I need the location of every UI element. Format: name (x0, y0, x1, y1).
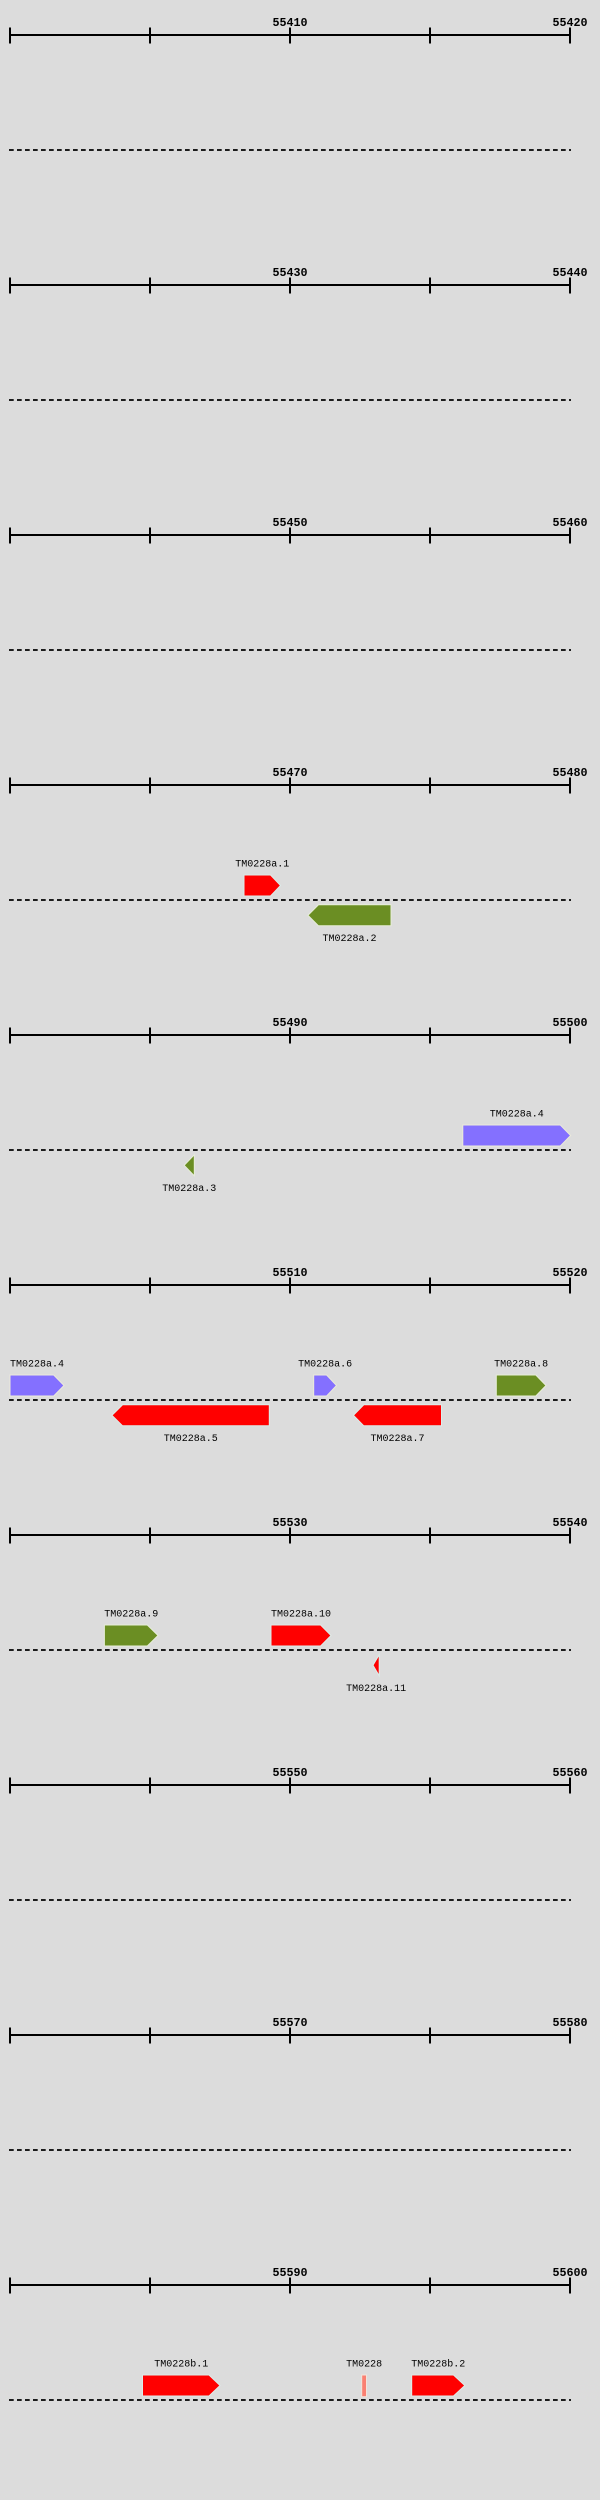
tick mark 55460 panel 4 (9, 778, 11, 794)
svg-text:TM0228a.1: TM0228a.1 (235, 859, 289, 870)
svg-text:TM0228: TM0228 (346, 2359, 382, 2370)
tick mark 55410 panel 1 (289, 28, 291, 44)
tick mark 55460 panel 3 (569, 528, 571, 544)
tick mark 55500 panel 5 (569, 1028, 571, 1044)
tick mark 55510 panel 6 (289, 1278, 291, 1294)
ruler axis line panel 10 (55580-55600) (9, 2284, 571, 2286)
ruler axis line panel 8 (55540-55560) (9, 1784, 571, 1786)
svg-text:TM0228a.7: TM0228a.7 (370, 1434, 424, 1445)
sequence midline panel 5 (dashed) (9, 1149, 571, 1151)
tick mark 55440 panel 3 (9, 528, 11, 544)
svg-text:TM0228a.2: TM0228a.2 (322, 934, 376, 945)
tick mark 55490 panel 5 (289, 1028, 291, 1044)
svg-text:55410: 55410 (272, 16, 307, 30)
gene arrow TM0228a.4 (forward strand) (10, 1375, 64, 1396)
svg-text:55570: 55570 (272, 2016, 307, 2030)
svg-text:TM0228a.4: TM0228a.4 (490, 1109, 544, 1120)
svg-text:55420: 55420 (552, 16, 587, 30)
svg-text:TM0228a.5: TM0228a.5 (164, 1434, 218, 1445)
svg-text:TM0228a.4: TM0228a.4 (10, 1359, 64, 1370)
tick mark 55425 panel 2 (149, 278, 151, 294)
tick mark 55520 panel 6 (569, 1278, 571, 1294)
svg-text:55590: 55590 (272, 2266, 307, 2280)
svg-text:TM0228b.2: TM0228b.2 (411, 2358, 465, 2370)
gene arrow TM0228a.5 (reverse strand) (112, 1405, 269, 1426)
tick mark 55550 panel 8 (289, 1778, 291, 1794)
tick mark 55570 panel 9 (289, 2028, 291, 2044)
tick mark 55560 panel 8 (569, 1778, 571, 1794)
sequence midline panel 2 (dashed) (9, 399, 571, 401)
tick mark 55575 panel 9 (429, 2028, 431, 2044)
ruler axis line panel 1 (55400-55420) (9, 34, 571, 36)
svg-text:55540: 55540 (552, 1516, 587, 1530)
svg-text:TM0228a.11: TM0228a.11 (346, 1684, 406, 1695)
ruler axis line panel 9 (55560-55580) (9, 2034, 571, 2036)
ruler axis line panel 7 (55520-55540) (9, 1534, 571, 1536)
tick mark 55470 panel 4 (289, 778, 291, 794)
svg-text:55580: 55580 (552, 2016, 587, 2030)
tick mark 55440 panel 2 (569, 278, 571, 294)
tick mark 55430 panel 2 (289, 278, 291, 294)
tick mark 55450 panel 3 (289, 528, 291, 544)
svg-text:TM0228a.8: TM0228a.8 (494, 1359, 548, 1370)
gene arrow TM0228a.7 (reverse strand) (354, 1405, 442, 1426)
tick mark 55475 panel 4 (429, 778, 431, 794)
svg-text:TM0228a.9: TM0228a.9 (104, 1609, 158, 1620)
tick mark 55525 panel 7 (149, 1528, 151, 1544)
tick mark 55590 panel 10 (289, 2278, 291, 2294)
gene arrow TM0228a.8 (forward strand) (496, 1375, 546, 1396)
tick mark 55420 panel 1 (569, 28, 571, 44)
ruler axis line panel 6 (55500-55520) (9, 1284, 571, 1286)
tick mark 55485 panel 5 (149, 1028, 151, 1044)
tick mark 55535 panel 7 (429, 1528, 431, 1544)
tick mark 55445 panel 3 (149, 528, 151, 544)
svg-text:55510: 55510 (272, 1266, 307, 1280)
tick mark 55540 panel 7 (569, 1528, 571, 1544)
svg-text:55430: 55430 (272, 266, 307, 280)
tick mark 55580 panel 10 (9, 2278, 11, 2294)
gene arrow TM0228a.1 (forward strand) (244, 875, 281, 896)
ruler axis line panel 2 (55420-55440) (9, 284, 571, 286)
tick mark 55420 panel 2 (9, 278, 11, 294)
tick mark 55500 panel 6 (9, 1278, 11, 1294)
tick mark 55580 panel 9 (569, 2028, 571, 2044)
svg-text:55600: 55600 (552, 2266, 587, 2280)
ruler axis line panel 5 (55480-55500) (9, 1034, 571, 1036)
tick mark 55520 panel 7 (9, 1528, 11, 1544)
svg-text:TM0228a.6: TM0228a.6 (298, 1359, 352, 1370)
tick mark 55455 panel 3 (429, 528, 431, 544)
gene arrow TM0228a.4 (forward strand) (463, 1125, 571, 1146)
sequence midline panel 7 (dashed) (9, 1649, 571, 1651)
svg-text:TM0228b.1: TM0228b.1 (154, 2358, 208, 2370)
svg-text:55460: 55460 (552, 516, 587, 530)
sequence midline panel 3 (dashed) (9, 649, 571, 651)
gene arrow TM0228b.2 (forward strand) (412, 2375, 465, 2396)
gene arrow TM0228a.11 (reverse strand) (373, 1655, 379, 1676)
tick mark 55405 panel 1 (149, 28, 151, 44)
tick mark 55560 panel 9 (9, 2028, 11, 2044)
svg-text:55520: 55520 (552, 1266, 587, 1280)
sequence midline panel 4 (dashed) (9, 899, 571, 901)
tick mark 55495 panel 5 (429, 1028, 431, 1044)
sequence midline panel 9 (dashed) (9, 2149, 571, 2151)
tick mark 55540 panel 8 (9, 1778, 11, 1794)
tick mark 55530 panel 7 (289, 1528, 291, 1544)
gene arrow TM0228a.10 (forward strand) (271, 1625, 331, 1646)
gene arrow TM0228b.1 (forward strand) (143, 2375, 221, 2396)
svg-text:55490: 55490 (272, 1016, 307, 1030)
gene feature TM0228 (box) (362, 2375, 367, 2397)
gene arrow TM0228a.3 (reverse strand) (184, 1155, 194, 1176)
tick mark 55480 panel 4 (569, 778, 571, 794)
svg-text:TM0228a.3: TM0228a.3 (162, 1184, 216, 1195)
sequence midline panel 10 (dashed) (9, 2399, 571, 2401)
svg-text:55480: 55480 (552, 766, 587, 780)
gene arrow TM0228a.2 (reverse strand) (308, 905, 391, 926)
gene arrow TM0228a.9 (forward strand) (104, 1625, 158, 1646)
svg-text:55560: 55560 (552, 1766, 587, 1780)
tick mark 55565 panel 9 (149, 2028, 151, 2044)
gene arrow TM0228a.6 (forward strand) (314, 1375, 337, 1396)
tick mark 55465 panel 4 (149, 778, 151, 794)
tick mark 55435 panel 2 (429, 278, 431, 294)
tick mark 55480 panel 5 (9, 1028, 11, 1044)
tick mark 55600 panel 10 (569, 2278, 571, 2294)
svg-text:55440: 55440 (552, 266, 587, 280)
svg-text:55470: 55470 (272, 766, 307, 780)
tick mark 55505 panel 6 (149, 1278, 151, 1294)
ruler axis line panel 4 (55460-55480) (9, 784, 571, 786)
svg-text:55450: 55450 (272, 516, 307, 530)
tick mark 55545 panel 8 (149, 1778, 151, 1794)
sequence midline panel 6 (dashed) (9, 1399, 571, 1401)
svg-text:55500: 55500 (552, 1016, 587, 1030)
tick mark 55415 panel 1 (429, 28, 431, 44)
tick mark 55585 panel 10 (149, 2278, 151, 2294)
svg-text:55530: 55530 (272, 1516, 307, 1530)
sequence midline panel 8 (dashed) (9, 1899, 571, 1901)
ruler axis line panel 3 (55440-55460) (9, 534, 571, 536)
svg-text:TM0228a.10: TM0228a.10 (271, 1609, 331, 1620)
tick mark 55515 panel 6 (429, 1278, 431, 1294)
tick mark 55555 panel 8 (429, 1778, 431, 1794)
tick mark 55595 panel 10 (429, 2278, 431, 2294)
sequence midline panel 1 (dashed) (9, 149, 571, 151)
svg-text:55550: 55550 (272, 1766, 307, 1780)
tick mark 55400 panel 1 (9, 28, 11, 44)
